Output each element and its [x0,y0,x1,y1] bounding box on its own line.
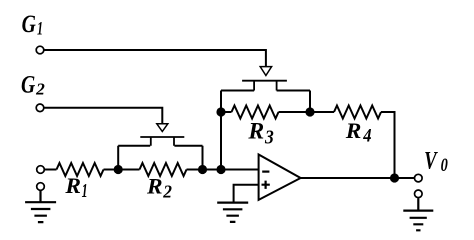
svg-text:R: R [345,118,362,143]
svg-text:R: R [64,173,81,198]
svg-text:2: 2 [162,182,172,202]
svg-text:1: 1 [37,18,43,39]
svg-text:4: 4 [362,126,371,146]
svg-text:G: G [21,72,35,99]
svg-text:R: R [146,173,163,198]
svg-text:2: 2 [35,79,45,98]
svg-text:V: V [424,148,438,175]
svg-text:1: 1 [82,180,88,202]
svg-text:3: 3 [264,128,274,149]
svg-text:0: 0 [441,156,448,176]
svg-text:G: G [22,11,36,38]
svg-text:R: R [247,119,264,144]
